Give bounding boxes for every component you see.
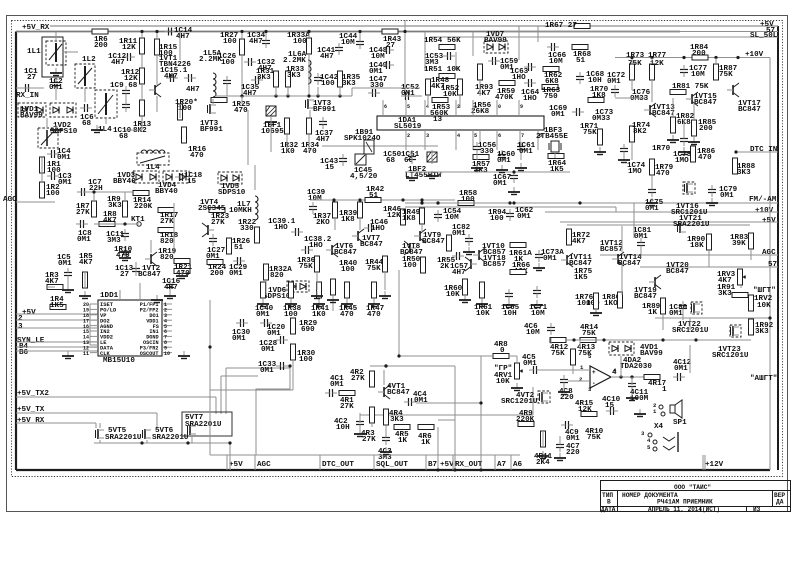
pin 19 wire [90,308,98,310]
wire stair2 [225,368,227,414]
svg-text:SRA2201U: SRA2201U [185,421,222,429]
resistor 1R46 [401,209,406,225]
capacitor 1C63 [528,63,530,71]
resistor 4R3 [370,407,375,423]
svg-text:200: 200 [699,125,713,133]
transistor 1VT2 [150,254,152,264]
wire [339,87,341,96]
wire FM/-AM rail [580,202,778,204]
resistor 1R73 [630,64,635,80]
capacitor 1C64 [528,79,530,87]
capacitor 1C16 [166,284,174,286]
junction d2 [650,56,653,59]
wire [287,87,289,96]
wire rail200 [310,199,455,201]
resistor 1R48 [426,79,431,95]
ground [156,295,158,300]
ground [169,291,171,296]
svg-text:1HO: 1HO [371,225,385,233]
resistor 1R72 [567,229,572,245]
junction a1 [140,30,143,33]
junction c2 2 [436,201,439,204]
resistor 1R13 [140,100,145,116]
resistor 1R43 [382,29,398,34]
ground [631,393,633,398]
svg-text:10M: 10M [308,195,322,203]
transistor 1VT19 [654,277,656,287]
resistor 1R31 [274,71,279,87]
svg-text:+5V_RX: +5V_RX [17,417,45,425]
resistor 4R15 [581,412,597,417]
wire [90,344,98,346]
resistor 1R37 [333,202,338,218]
resistor 1R66 [510,270,526,275]
wire [265,280,267,295]
ground [563,387,565,392]
svg-text:0M1: 0M1 [261,346,275,354]
wire step v [615,207,617,212]
capacitor 1C52 [405,92,407,100]
svg-text:0M1: 0M1 [607,78,621,86]
pin 14 wire [90,335,98,337]
transistor 1VT7 [357,231,359,241]
resistor 1R8 [99,222,115,227]
svg-text:1R73: 1R73 [626,52,645,60]
resistor 1R39 [358,202,363,218]
svg-text:3K3: 3K3 [390,416,404,424]
resistor 4R4 [384,409,389,425]
svg-text:3: 3 [426,133,429,139]
junction c2 3 [508,201,511,204]
wire stair1 [220,376,222,414]
wire dd1 left drop [89,304,91,345]
node +10V right rail [625,57,770,59]
wire 4c4 long [416,402,481,404]
crystal 1B91 [364,140,374,154]
svg-text:ИЗ: ИЗ [753,506,761,513]
wire c top v5 [537,26,539,42]
transistor 1VT21 [679,223,681,233]
svg-text:4,5/20: 4,5/20 [350,173,378,181]
svg-text:10MKH: 10MKH [229,207,252,215]
wire [455,454,520,456]
junction [420,201,423,204]
svg-text:27K: 27K [160,218,174,226]
wire [631,80,633,90]
svg-text:4H7: 4H7 [452,269,466,277]
svg-text:0M1: 0M1 [674,365,688,373]
svg-text:4H7: 4H7 [164,284,178,292]
svg-text:1: 1 [474,104,477,110]
terminal tick [425,455,427,470]
resistor 1R38 [289,282,294,298]
svg-text:АПРЕЛЬ 11, 2014(ИСТ): АПРЕЛЬ 11, 2014(ИСТ) [648,506,720,513]
junction b3 [264,30,267,33]
svg-text:0M1: 0M1 [58,260,72,268]
diode 1VD2 [50,103,76,117]
svg-text:1K: 1K [398,437,408,445]
svg-text:750: 750 [544,93,558,101]
wire 5vt stub1 [99,423,101,428]
svg-text:BC857: BC857 [600,246,623,254]
svg-text:100: 100 [221,59,235,67]
wire [241,96,243,104]
wire +5V_TX rail [16,412,157,414]
svg-text:0M1: 0M1 [58,179,72,187]
capacitor 4C5 [533,366,535,374]
transistor 1VT18 [470,259,472,269]
svg-text:10695: 10695 [261,128,284,136]
svg-text:75K: 75K [719,71,733,79]
svg-text:AGC: AGC [3,196,17,204]
pin wire top 14 [424,100,426,116]
svg-text:1KO: 1KO [604,300,618,308]
wire 4R8 feed v [398,270,400,356]
resistor 4R13 [571,349,576,365]
resistor 1R93 [478,64,483,80]
wire d v2 [651,58,653,64]
wire [173,224,175,254]
svg-text:2: 2 [407,133,410,139]
pin wire bottom 5 [472,130,474,150]
svg-text:7: 7 [521,133,524,139]
transistor 1VT15 [691,94,693,104]
svg-text:KT1: KT1 [131,216,145,224]
resistor 1R6 [92,29,108,34]
svg-text:100: 100 [403,262,417,270]
resistor 1R88 [733,158,738,174]
diode 1VD3 [133,171,159,183]
wire [226,88,228,96]
svg-text:10K: 10K [446,291,460,299]
wire [67,280,69,287]
capacitor 1C32 [248,58,250,66]
pin wire bottom 4 [455,130,457,150]
ground [124,253,126,258]
resistor 1R11 [140,38,145,54]
wire [438,419,455,421]
terminal tick [510,455,512,470]
pin 5 wire [162,325,172,327]
svg-text:220K: 220K [134,203,153,211]
svg-text:РЧ41АМ ПРИЕМНИК: РЧ41АМ ПРИЕМНИК [657,498,713,505]
wire [520,154,522,160]
resistor 1R32A [264,264,269,280]
svg-text:220K: 220K [516,416,535,424]
connector X4 p1 [661,412,665,416]
capacitor 1C53 [447,52,449,60]
wire tx2 down [215,397,217,414]
transistor 1VT3a [209,104,211,114]
wire d3 1 [631,377,633,385]
wire [84,88,86,102]
svg-text:4H7: 4H7 [316,136,330,144]
resistor 4R5 [394,425,410,430]
capacitor 4C9 [565,421,567,429]
svg-text:BC847: BC847 [738,106,761,114]
svg-text:2K: 2K [440,263,450,271]
transistor 1VT10 [478,250,480,260]
resistor 1R30 [291,344,296,360]
ground [651,198,653,203]
wire [359,413,361,423]
wire [559,436,561,442]
svg-text:1R81 75K: 1R81 75K [672,83,709,91]
transistor 4VT2 box [538,391,550,403]
inductor 1L5A [213,73,216,79]
svg-text:TDA2030: TDA2030 [620,363,652,371]
resistor 1R42 [365,198,381,203]
svg-text:BAV99: BAV99 [640,350,663,358]
capacitor 4C10 [610,407,612,415]
wire [708,250,710,267]
wire [431,150,433,164]
wire b row [215,95,352,97]
junction b5 [240,94,243,97]
pin wire top 11 [472,100,474,116]
title block box [601,481,791,512]
svg-text:4H7: 4H7 [249,38,263,46]
svg-text:BC847: BC847 [618,260,641,268]
wire d2 v [769,203,771,214]
capacitor 1C27 [209,238,217,240]
resistor 1R64 [548,154,564,159]
svg-text:RX_IN: RX_IN [16,92,39,100]
pin wire top 15 [405,100,407,116]
pin 10 wire [162,352,172,354]
svg-text:0M1: 0M1 [369,68,383,76]
wire syn +5V [16,313,98,315]
capacitor 1C48 [386,46,388,54]
svg-text:100: 100 [299,356,313,364]
svg-text:CLK: CLK [100,351,110,357]
wire [55,32,57,41]
resistor 1R20 [178,104,183,120]
resistor top right [749,295,754,311]
svg-text:0: 0 [500,347,505,355]
svg-text:DTC_IN: DTC_IN [750,146,778,154]
pin 6 wire [162,330,172,332]
junction bl1 [140,441,143,444]
junction r340c [661,338,664,341]
junction bl3 [228,441,231,444]
svg-text:470: 470 [340,311,354,319]
capacitor 1C47 [372,89,374,97]
capacitor 1C3 [51,172,53,180]
resistor 1R27 [240,39,245,55]
junction [768,316,771,319]
capacitor 1C2 [52,82,60,84]
svg-text:100: 100 [284,311,298,319]
svg-text:SRC1201U: SRC1201U [712,352,749,360]
transistor 1VT13 [649,105,651,115]
ground [513,187,515,192]
wire out box [390,375,612,430]
svg-text:6: 6 [384,104,387,110]
junction [436,468,439,471]
capacitor 1C15 [170,74,172,82]
terminal tick [319,455,321,470]
capacitor 1C14 [168,28,170,36]
junction op2 [630,375,633,378]
svg-text:200: 200 [94,42,108,50]
resistor 1R24 [207,260,223,265]
wire opamp in1 [541,369,590,371]
wire op out [611,376,660,378]
wire rx line [454,366,456,470]
ground MB right [183,351,185,356]
svg-text:ООО "ТАИС": ООО "ТАИС" [674,484,711,491]
transistor 5VT7 [189,425,191,435]
svg-text:2KO: 2KO [316,219,330,227]
wire b2 v3 [254,165,256,190]
svg-text:BC847: BC847 [422,238,445,246]
potentiometer 4RV1 [515,363,520,379]
capacitor 1C34 [262,40,270,42]
resistor 1R79 [650,159,655,175]
junction r340b [602,338,605,341]
junction d5 [736,56,739,59]
terminal tick [226,455,228,470]
svg-text:SRC1201U: SRC1201U [501,398,538,406]
bottom power bus [16,469,770,471]
resistor 1R63 [542,85,558,90]
pin wire bottom 7 [519,130,521,150]
svg-text:-: - [592,380,596,387]
resistor 1R16 [182,127,187,143]
resistor 1R32 [285,118,290,134]
resistor 1RV3 [738,269,743,285]
wire d v1 [631,58,633,64]
wire A vert1 [141,32,143,39]
svg-text:27K: 27K [211,219,225,227]
resistor 1R59 [499,81,515,86]
+5V top rail [50,25,778,27]
terminal tick [452,455,454,470]
transistor 5VT6 [144,429,146,439]
capacitor 1C56 [473,146,481,148]
svg-text:5: 5 [474,133,477,139]
wire [384,272,386,290]
capacitor 1C1 [25,84,27,92]
svg-text:MB15U10: MB15U10 [103,357,135,365]
svg-text:10H: 10H [503,310,517,318]
svg-text:0M1: 0M1 [414,397,428,405]
capacitor 4C11 [628,383,636,385]
transistor 1VT6 [331,245,333,255]
resistor 1R52 [458,79,463,95]
wire AGC mid rail [600,254,778,256]
junction b9 [316,94,319,97]
capacitor 1C20 [264,319,266,327]
svg-text:SL_50L: SL_50L [750,32,778,40]
resistor 1R5 [83,272,88,288]
wire +5V_TX2 rail [16,396,216,398]
resistor 1R17 [158,208,174,213]
svg-text:2.2MK: 2.2MK [283,57,306,65]
wire [572,366,574,374]
wire [621,226,623,252]
svg-text:15: 15 [187,178,197,186]
capacitor 1C5 [64,272,72,274]
resistor 1R58 [458,201,474,206]
junction r200a [332,198,335,201]
resistor 1R67 [574,24,590,29]
transistor 1VT1 [154,85,156,95]
vertical net x770 [769,58,771,471]
junction b2 [307,30,310,33]
capacitor 1C71 [533,290,541,292]
wire c top v1 [424,32,426,71]
ground 1bf1 [270,117,272,122]
junction [578,201,581,204]
wire [84,272,86,287]
pin 4 wire [162,319,172,321]
wire [640,250,642,258]
capacitor 1C65 [505,293,513,295]
svg-text:0M1: 0M1 [401,90,415,98]
wire c3 3 [516,356,518,363]
svg-text:27K: 27K [76,209,90,217]
resistor 1R89 [661,298,666,314]
capacitor 1C81 [637,242,645,244]
svg-text:15: 15 [325,164,335,172]
junction x481 [479,401,482,404]
crystal 1BF2 [427,152,437,162]
resistor 1R83 [749,233,754,249]
svg-text:BF991: BF991 [313,106,336,114]
ground [96,125,98,130]
ground [67,285,69,290]
svg-text:1MO: 1MO [675,157,689,165]
resistor 1R84 [692,55,708,60]
resistor 1R9 [123,201,128,217]
resistor 4R6 [418,425,434,430]
pin wire top 16 [382,100,384,116]
svg-text:470: 470 [116,252,130,260]
svg-text:0: 0 [498,104,501,110]
resistor 1R92 [749,319,754,335]
wire DTC_IN [736,151,778,153]
capacitor 1C13 [132,268,140,270]
svg-text:1L1: 1L1 [27,48,41,56]
pin 20 wire [90,303,98,305]
wire 5vt7 drop [191,436,193,443]
left power bus [15,32,17,471]
wire tx down [156,413,158,428]
svg-text:0M1: 0M1 [452,230,466,238]
connector X4 p2 [659,405,663,409]
capacitor 1C57 [456,252,458,260]
svg-text:BF991: BF991 [200,126,223,134]
capacitor 1C39 [309,206,317,208]
capacitor 1C45 trim [355,154,366,165]
capacitor 1C38.2 [305,246,307,254]
capacitor 4C4 [408,398,410,406]
resistor 1R36 [315,256,320,272]
pin 12 wire [90,346,98,348]
wire c2 rail [405,202,580,204]
wire [244,61,248,63]
wire [371,423,373,427]
svg-text:10M: 10M [531,310,545,318]
resistor 1R4 [50,305,66,310]
svg-text:68: 68 [82,120,92,128]
capacitor 1C62 [506,213,514,215]
resistor 1R45 [345,282,350,298]
resistor 4R12 [550,338,566,343]
svg-text:470: 470 [303,148,317,156]
